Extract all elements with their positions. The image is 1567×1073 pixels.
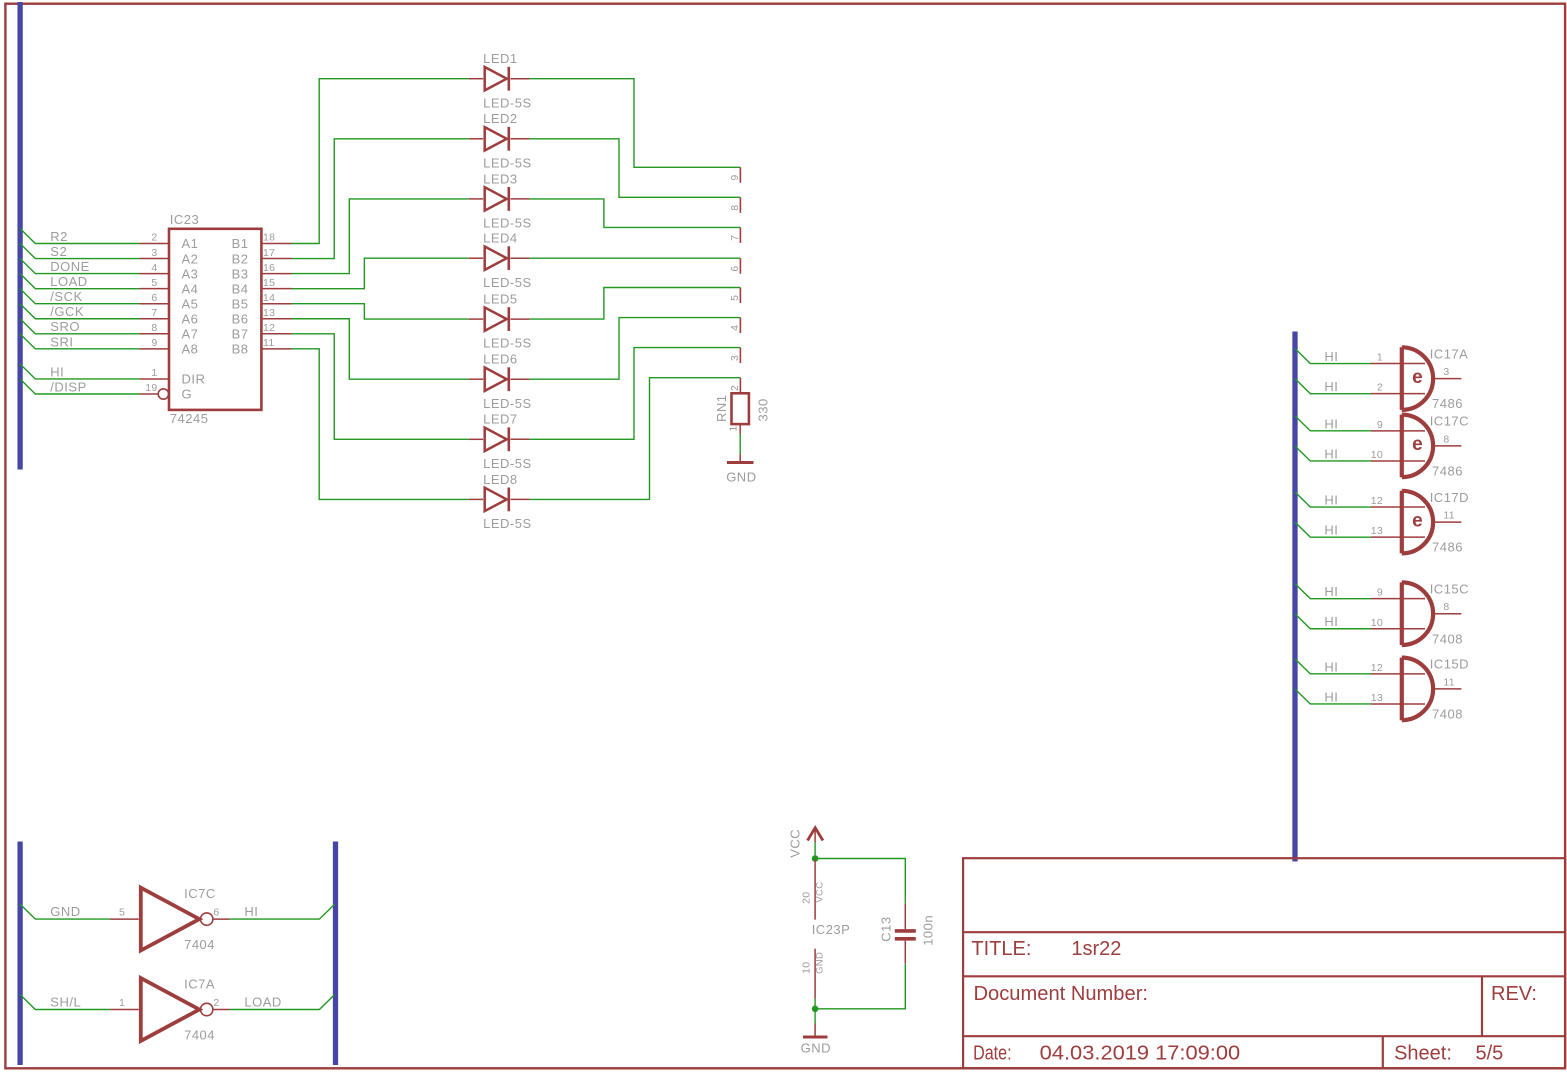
pin stub IC23 pin 19 (140, 393, 159, 395)
wire LED3 cathode to RN1 pin 7 (529, 199, 740, 228)
svg-text:13: 13 (1371, 525, 1383, 537)
wire LED4 cathode to RN1 pin 6 (529, 257, 740, 259)
pin stub IC23P GND pin 10 (814, 949, 816, 999)
svg-text:IC7A: IC7A (184, 977, 215, 992)
svg-text:5: 5 (119, 906, 125, 918)
svg-text:GND: GND (801, 1041, 831, 1056)
svg-text:B1: B1 (232, 236, 249, 251)
pin stub IC23 pin 2 (140, 243, 170, 245)
svg-text:100n: 100n (920, 915, 935, 946)
svg-text:4: 4 (729, 325, 741, 331)
pin stub RN1 pin 7 (739, 227, 741, 243)
gate IC15C body bar (1400, 582, 1404, 645)
svg-text:7: 7 (729, 235, 741, 241)
diode LED5 triangle (485, 307, 507, 330)
diode LED1 triangle (485, 67, 507, 90)
svg-text:SRO: SRO (50, 319, 80, 334)
title block outer box (963, 858, 1565, 1068)
pin stub RN1 pin 1 (739, 424, 741, 434)
svg-text:7404: 7404 (184, 1028, 215, 1043)
wire net S2 from bus (20, 244, 139, 259)
svg-text:A5: A5 (182, 296, 199, 311)
svg-text:IC17C: IC17C (1430, 414, 1469, 429)
svg-text:11: 11 (263, 337, 275, 349)
wire LED1 cathode to RN1 pin 9 (529, 79, 740, 168)
svg-text:10: 10 (1371, 449, 1383, 461)
svg-text:B5: B5 (232, 296, 249, 311)
capacitor C13 plate 1 (895, 929, 916, 933)
svg-text:17: 17 (263, 247, 275, 259)
diode LED6 cathode stub (511, 378, 530, 380)
wire GND node down (814, 1009, 816, 1024)
diode LED7 anode stub (469, 438, 483, 440)
diode LED5 anode stub (469, 318, 483, 320)
svg-text:9: 9 (151, 337, 157, 349)
pin stub IC7C pin 5 (110, 918, 139, 920)
svg-text:HI: HI (1324, 416, 1338, 431)
ground GND symbol bar (803, 1036, 828, 1039)
wire LED2 cathode to RN1 pin 8 (529, 139, 740, 198)
gate IC15C body arc (1402, 582, 1433, 645)
svg-text:6: 6 (213, 906, 219, 918)
pin stub IC17A output pin 3 (1433, 378, 1461, 380)
svg-text:LED-5S: LED-5S (483, 396, 532, 411)
svg-text:A4: A4 (182, 281, 199, 296)
title block divider row1 (963, 931, 1565, 933)
diode LED3 triangle (485, 187, 507, 210)
svg-text:9: 9 (1377, 587, 1383, 599)
diode LED1 cathode bar (507, 67, 510, 91)
svg-text:LED-5S: LED-5S (483, 456, 532, 471)
pin stub RN1 pin 9 (739, 167, 741, 183)
diode LED2 cathode stub (511, 138, 530, 140)
svg-text:7: 7 (151, 307, 157, 319)
pin stub IC23 pin 16 (261, 273, 291, 275)
svg-text:e: e (1412, 434, 1423, 455)
gate IC17D body arc (1402, 491, 1433, 554)
svg-text:1: 1 (1377, 352, 1383, 364)
wire net SRO from bus (20, 319, 139, 334)
svg-text:2: 2 (151, 232, 157, 244)
diode LED8 anode stub (469, 498, 483, 500)
wire net HI to bus (230, 904, 335, 919)
svg-text:LED1: LED1 (483, 51, 518, 66)
diode LED5 cathode bar (507, 307, 510, 331)
svg-text:IC15C: IC15C (1430, 582, 1469, 597)
resistor RN1 body (732, 393, 749, 424)
svg-text:2: 2 (729, 385, 741, 391)
pin stub RN1 pin 6 (739, 258, 741, 274)
svg-text:6: 6 (729, 265, 741, 271)
svg-text:LED-5S: LED-5S (483, 95, 532, 110)
wire net HI from bus to IC17D pin 12 (1295, 492, 1371, 507)
gate IC15D body bar (1400, 658, 1404, 721)
svg-text:GND: GND (726, 470, 756, 485)
svg-text:HI: HI (50, 364, 64, 379)
pin stub IC23 pin 13 (261, 318, 291, 320)
wire net /SCK from bus (20, 289, 139, 304)
svg-text:Sheet:: Sheet: (1394, 1043, 1452, 1065)
pin stub IC17D pin 12 (1371, 506, 1425, 508)
pin stub IC23 pin 12 (261, 333, 291, 335)
pin stub IC23 pin 6 (140, 303, 170, 305)
ground GND below RN1 pin line (739, 454, 741, 463)
svg-text:HI: HI (1324, 523, 1338, 538)
svg-text:A1: A1 (182, 236, 199, 251)
diode LED8 triangle (485, 488, 507, 511)
diode LED7 cathode bar (507, 427, 510, 451)
inverter IC7C bubble (201, 913, 213, 925)
diode LED8 cathode stub (511, 498, 530, 500)
junction dot at GND node (812, 1006, 819, 1013)
pin stub IC7C pin 6 (212, 918, 229, 920)
svg-text:LED-5S: LED-5S (483, 155, 532, 170)
wire IC23 B1 to LED1 anode (292, 79, 469, 244)
pin stub RN1 pin 8 (739, 197, 741, 213)
pin stub IC23 pin 11 (261, 348, 291, 350)
wire IC23 B4 to LED4 anode (292, 258, 469, 288)
svg-text:A7: A7 (182, 327, 199, 342)
svg-text:7486: 7486 (1432, 540, 1463, 555)
svg-text:11: 11 (1443, 676, 1455, 688)
diode LED8 cathode bar (507, 488, 510, 512)
svg-text:IC17D: IC17D (1430, 490, 1469, 505)
wire RN1 pin1 to GND (739, 434, 741, 454)
svg-text:8: 8 (151, 322, 157, 334)
svg-text:LOAD: LOAD (50, 274, 87, 289)
pin stub IC23 pin 17 (261, 258, 291, 260)
wire net DONE from bus (20, 259, 139, 274)
svg-text:Date:: Date: (973, 1043, 1012, 1065)
svg-text:/GCK: /GCK (50, 304, 84, 319)
svg-text:e: e (1412, 510, 1423, 531)
pin stub IC17C pin 9 (1371, 430, 1425, 432)
svg-text:13: 13 (1371, 692, 1383, 704)
svg-text:B4: B4 (232, 281, 249, 296)
svg-text:IC23P: IC23P (812, 922, 851, 937)
capacitor C13 plate 2 (895, 937, 916, 941)
svg-text:LED2: LED2 (483, 111, 518, 126)
diode LED7 cathode stub (511, 438, 530, 440)
pin stub IC15C pin 10 (1371, 628, 1425, 630)
svg-text:04.03.2019 17:09:00: 04.03.2019 17:09:00 (1040, 1043, 1241, 1065)
pin stub RN1 pin 2 (739, 378, 741, 394)
svg-text:9: 9 (729, 175, 741, 181)
bus left bottom (17, 842, 22, 1066)
svg-text:A8: A8 (182, 342, 199, 357)
svg-text:12: 12 (263, 322, 275, 334)
wire net HI from bus to IC15D pin 13 (1295, 689, 1371, 704)
wire net HI from bus to IC17A pin 2 (1295, 379, 1371, 394)
pin stub RN1 pin 4 (739, 318, 741, 334)
svg-text:7408: 7408 (1432, 707, 1463, 722)
svg-text:/DISP: /DISP (50, 379, 86, 394)
pin stub IC23 pin 18 (261, 243, 291, 245)
wire IC23 B2 to LED2 anode (292, 139, 469, 259)
gate IC17C body arc (1402, 415, 1433, 478)
gate IC17C body bar (1400, 415, 1404, 478)
diode LED1 anode stub (469, 78, 483, 80)
wire IC23 B5 to LED5 anode (292, 304, 469, 319)
diode LED7 triangle (485, 428, 507, 451)
title block divider row3 (963, 1035, 1565, 1037)
svg-text:REV:: REV: (1491, 983, 1537, 1005)
pin stub IC15D pin 13 (1371, 703, 1425, 705)
svg-text:10: 10 (1371, 617, 1383, 629)
wire IC23 B6 to LED6 anode (292, 319, 469, 379)
svg-text:HI: HI (1324, 379, 1338, 394)
bus bottom right (333, 842, 338, 1066)
wire net /GCK from bus (20, 304, 139, 319)
svg-text:5: 5 (151, 277, 157, 289)
pin stub IC23 pin 4 (140, 273, 170, 275)
gate IC15D body arc (1402, 658, 1433, 721)
wire net LOAD from bus (20, 274, 139, 289)
svg-text:S2: S2 (50, 244, 67, 259)
wire LED7 cathode to RN1 pin 3 (529, 348, 740, 440)
svg-text:HI: HI (1324, 659, 1338, 674)
svg-text:e: e (1412, 367, 1423, 388)
svg-text:/SCK: /SCK (50, 289, 82, 304)
wire net LOAD to bus (230, 995, 335, 1010)
pin stub IC15D output pin 11 (1433, 688, 1461, 690)
diode LED6 triangle (485, 368, 507, 391)
wire net GND from bus to IC7C (20, 904, 110, 919)
wire net HI to IC23 DIR (20, 364, 139, 379)
svg-text:16: 16 (263, 262, 275, 274)
pin stub IC7A pin 1 (110, 1009, 139, 1011)
svg-text:7486: 7486 (1432, 396, 1463, 411)
wire net SH/L from bus to IC7A (20, 995, 110, 1010)
svg-text:1: 1 (119, 997, 125, 1009)
pin stub IC15D pin 12 (1371, 673, 1425, 675)
svg-text:LED-5S: LED-5S (483, 275, 532, 290)
gate IC17A body arc (1402, 347, 1433, 410)
diode LED4 cathode stub (511, 257, 530, 259)
diode LED4 cathode bar (507, 246, 510, 270)
pin stub IC17A pin 1 (1371, 363, 1425, 365)
title block divider row2 (963, 975, 1565, 977)
svg-text:HI: HI (1324, 349, 1338, 364)
svg-text:VCC: VCC (787, 829, 802, 858)
capacitor C13 top pin (904, 904, 906, 929)
diode LED6 cathode bar (507, 367, 510, 391)
svg-text:LED-5S: LED-5S (483, 216, 532, 231)
inverter IC7A bubble (201, 1003, 213, 1015)
svg-text:20: 20 (800, 892, 812, 904)
diode LED3 cathode bar (507, 187, 510, 211)
pin stub RN1 pin 3 (739, 348, 741, 364)
svg-text:Document Number:: Document Number: (974, 983, 1149, 1005)
wire net SRI from bus (20, 334, 139, 349)
op IC23 74245 box (169, 229, 261, 410)
svg-text:8: 8 (729, 205, 741, 211)
svg-text:RN1: RN1 (714, 394, 729, 422)
svg-text:A2: A2 (182, 251, 199, 266)
svg-text:SRI: SRI (50, 334, 73, 349)
svg-text:HI: HI (244, 904, 258, 919)
diode LED5 cathode stub (511, 318, 530, 320)
diode LED2 anode stub (469, 138, 483, 140)
svg-text:14: 14 (263, 292, 275, 304)
svg-text:8: 8 (1443, 601, 1449, 613)
svg-text:1: 1 (151, 367, 157, 379)
svg-text:B8: B8 (232, 342, 249, 357)
svg-text:3: 3 (1443, 366, 1449, 378)
capacitor C13 bottom pin (904, 941, 906, 964)
pin stub IC23P VCC pin 20 (814, 860, 816, 920)
title block divider sheet column (1382, 1036, 1384, 1068)
svg-text:LED-5S: LED-5S (483, 336, 532, 351)
pin stub IC23 pin 3 (140, 258, 170, 260)
svg-text:1: 1 (727, 425, 739, 431)
svg-text:10: 10 (800, 962, 812, 974)
pin stub IC15C output pin 8 (1433, 613, 1461, 615)
svg-text:5/5: 5/5 (1476, 1043, 1504, 1065)
svg-text:4: 4 (151, 262, 157, 274)
svg-text:11: 11 (1443, 510, 1455, 522)
svg-text:74245: 74245 (170, 411, 209, 426)
gate IC17A body bar (1400, 347, 1404, 410)
svg-text:LED8: LED8 (483, 472, 518, 487)
pin stub IC23 pin 14 (261, 303, 291, 305)
pin stub RN1 pin 5 (739, 288, 741, 304)
svg-text:B7: B7 (232, 327, 249, 342)
wire net HI from bus to IC15C pin 10 (1295, 614, 1371, 629)
svg-text:IC15D: IC15D (1430, 657, 1469, 672)
wire LED6 cathode to RN1 pin 4 (529, 318, 740, 380)
pin stub IC15C pin 9 (1371, 598, 1425, 600)
title block divider rev column (1481, 976, 1483, 1036)
svg-text:19: 19 (145, 382, 157, 394)
wire VCC to junction (814, 842, 816, 857)
wire IC23P GND pin to junction (814, 999, 816, 1009)
svg-text:2: 2 (213, 997, 219, 1009)
pin stub IC17D output pin 11 (1433, 521, 1461, 523)
diode LED3 cathode stub (511, 198, 530, 200)
junction dot at VCC node (812, 855, 819, 862)
svg-text:LOAD: LOAD (244, 994, 281, 1009)
wire net HI from bus to IC17A pin 1 (1295, 349, 1371, 364)
wire net HI from bus to IC17C pin 10 (1295, 446, 1371, 461)
pin stub IC23 pin 9 (140, 348, 170, 350)
wire net HI from bus to IC15C pin 9 (1295, 584, 1371, 599)
wire LED5 cathode to RN1 pin 5 (529, 288, 740, 320)
svg-text:SH/L: SH/L (50, 994, 81, 1009)
diode LED1 cathode stub (511, 78, 530, 80)
wire IC23 B3 to LED3 anode (292, 199, 469, 274)
ground GND below RN1 bar (727, 461, 754, 464)
svg-text:LED7: LED7 (483, 412, 518, 427)
svg-text:LED6: LED6 (483, 352, 518, 367)
svg-text:GND: GND (50, 904, 80, 919)
wire VCC node to C13 (815, 859, 905, 904)
svg-text:A6: A6 (182, 311, 199, 326)
svg-text:HI: HI (1324, 492, 1338, 507)
diode LED3 anode stub (469, 198, 483, 200)
svg-text:LED-5S: LED-5S (483, 516, 532, 531)
wire GND node to C13 bottom (815, 963, 905, 1009)
svg-text:HI: HI (1324, 614, 1338, 629)
wire net HI from bus to IC17D pin 13 (1295, 522, 1371, 537)
svg-text:15: 15 (263, 277, 275, 289)
svg-text:LED4: LED4 (483, 231, 518, 246)
inverter IC7A triangle (141, 978, 200, 1041)
svg-text:TITLE:: TITLE: (971, 938, 1031, 960)
svg-text:B2: B2 (232, 251, 249, 266)
pin stub IC23 pin 7 (140, 318, 170, 320)
bus left top (17, 2, 22, 470)
svg-text:12: 12 (1371, 495, 1383, 507)
svg-text:5: 5 (729, 295, 741, 301)
svg-text:7404: 7404 (184, 937, 215, 952)
svg-text:3: 3 (729, 355, 741, 361)
diode LED6 anode stub (469, 378, 483, 380)
svg-text:9: 9 (1377, 419, 1383, 431)
svg-text:R2: R2 (50, 229, 68, 244)
inverter IC7C triangle (141, 888, 200, 951)
svg-text:13: 13 (263, 307, 275, 319)
svg-text:C13: C13 (878, 916, 893, 941)
svg-text:DIR: DIR (182, 372, 206, 387)
diode LED4 triangle (485, 247, 507, 270)
wire net R2 from bus (20, 229, 139, 244)
diode LED2 triangle (485, 127, 507, 150)
svg-text:3: 3 (151, 247, 157, 259)
svg-text:VCC: VCC (814, 882, 825, 903)
svg-text:1sr22: 1sr22 (1071, 938, 1121, 960)
pin stub IC23 pin 8 (140, 333, 170, 335)
svg-text:HI: HI (1324, 446, 1338, 461)
wire net HI from bus to IC15D pin 12 (1295, 659, 1371, 674)
svg-text:A3: A3 (182, 266, 199, 281)
svg-text:G: G (182, 387, 193, 402)
wire LED8 cathode to RN1 pin 2 (529, 378, 740, 500)
diode LED4 anode stub (469, 257, 483, 259)
diode LED2 cathode bar (507, 127, 510, 151)
gate IC17D body bar (1400, 491, 1404, 554)
power VCC pin line (814, 830, 816, 842)
pin stub IC17C pin 10 (1371, 460, 1425, 462)
svg-text:B6: B6 (232, 311, 249, 326)
ground GND symbol pin line (814, 1024, 816, 1038)
svg-text:B3: B3 (232, 266, 249, 281)
power VCC symbol arrow (808, 828, 823, 841)
pin stub IC23 pin 5 (140, 288, 170, 290)
pin stub IC7A pin 2 (212, 1009, 229, 1011)
bus right (1292, 332, 1297, 862)
svg-text:LED3: LED3 (483, 171, 518, 186)
svg-text:2: 2 (1377, 382, 1383, 394)
svg-text:6: 6 (151, 292, 157, 304)
inversion bubble IC23 G pin (158, 389, 168, 399)
svg-text:12: 12 (1371, 662, 1383, 674)
svg-text:HI: HI (1324, 584, 1338, 599)
wire net /DISP to IC23 G (20, 379, 139, 394)
pin stub IC23 pin 1 (140, 378, 170, 380)
wire IC23 B7 to LED7 anode (292, 334, 469, 440)
svg-text:IC17A: IC17A (1430, 346, 1469, 361)
pin stub IC17D pin 13 (1371, 536, 1425, 538)
wire net HI from bus to IC17C pin 9 (1295, 416, 1371, 431)
svg-text:8: 8 (1443, 433, 1449, 445)
svg-text:7486: 7486 (1432, 464, 1463, 479)
pin stub IC17C output pin 8 (1433, 445, 1461, 447)
svg-text:HI: HI (1324, 689, 1338, 704)
wire IC23 B8 to LED8 anode (292, 349, 469, 500)
svg-text:GND: GND (814, 952, 825, 974)
svg-text:LED5: LED5 (483, 292, 518, 307)
